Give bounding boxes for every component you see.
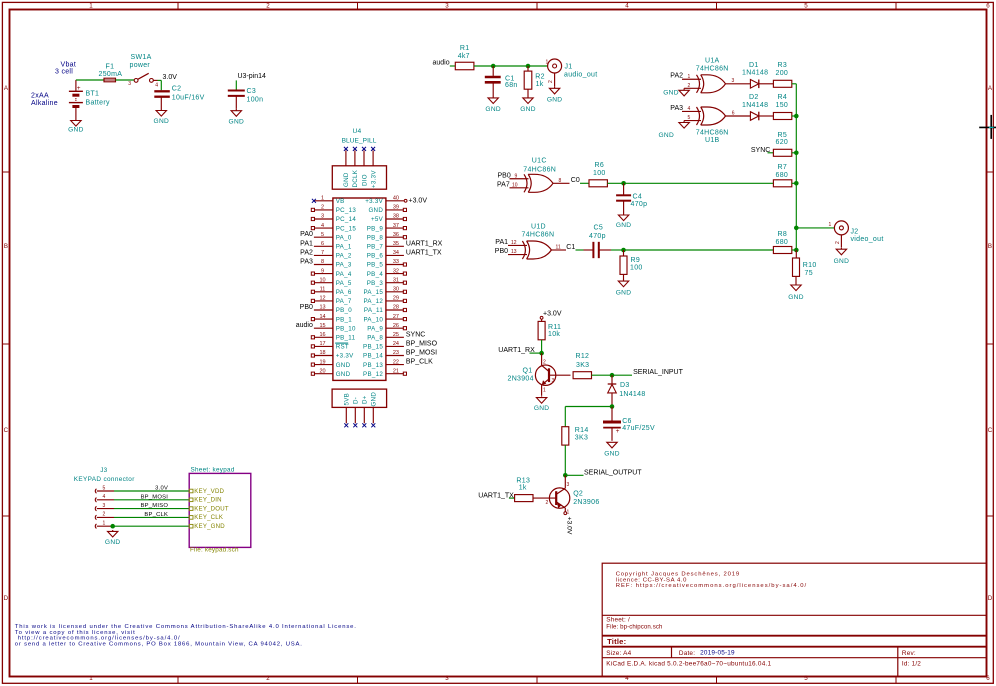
svg-text:8: 8 (321, 259, 324, 265)
wire R4 to video bus (792, 115, 797, 117)
svg-text:3K3: 3K3 (575, 435, 588, 442)
svg-text:PA7: PA7 (497, 181, 510, 188)
svg-text:BT1: BT1 (86, 91, 100, 98)
U4 pin 4 PC_15 (311, 223, 356, 233)
svg-text:3: 3 (445, 3, 449, 10)
svg-text:GND: GND (336, 371, 351, 378)
svg-text:PA_0: PA_0 (336, 234, 352, 241)
U4 pin 22 PB_13 (363, 359, 433, 369)
power +3.0V below Q2 (564, 512, 573, 535)
svg-text:GND: GND (105, 539, 121, 546)
transistor Q2 2N3906 (533, 475, 600, 515)
U1D pin 12 (508, 244, 527, 246)
connector J2 video_out (829, 221, 884, 248)
svg-text:24: 24 (393, 341, 399, 347)
svg-text:27: 27 (393, 314, 399, 320)
svg-text:PA0: PA0 (300, 231, 313, 238)
connector J1 audio_out (546, 59, 598, 87)
wire R14 to SERIAL_OUTPUT junction (564, 445, 566, 475)
xor gate U1C 74HC86N (523, 158, 556, 193)
svg-text:2: 2 (103, 512, 106, 518)
junction R4 bus (794, 114, 799, 119)
ground below BT1 (68, 119, 84, 134)
svg-text:C: C (4, 427, 9, 434)
U1B pin 4 (682, 110, 701, 112)
svg-text:1: 1 (321, 196, 324, 202)
svg-text:PB_1: PB_1 (336, 316, 353, 323)
fuse F1 250mA (99, 64, 123, 82)
svg-text:Size: A4: Size: A4 (606, 650, 631, 657)
svg-text:R5: R5 (778, 132, 788, 139)
U4 pin 16 PB_11 (311, 332, 355, 342)
U4 pin 26 PA_9 (367, 323, 406, 333)
svg-text:KiCad E.D.A. kicad 5.0.2-bee7: KiCad E.D.A. kicad 5.0.2-bee76a0~70~ubun… (606, 660, 771, 667)
svg-text:680: 680 (776, 172, 789, 179)
svg-text:+5V: +5V (371, 216, 384, 223)
svg-text:PA_6: PA_6 (336, 289, 352, 296)
svg-text:U1D: U1D (531, 224, 546, 231)
transistor Q1 2N3904 (508, 353, 571, 396)
svg-text:D3: D3 (620, 382, 630, 389)
svg-text:3: 3 (732, 78, 735, 84)
svg-text:1: 1 (546, 60, 549, 66)
xor gate U1B 74HC86N (696, 107, 729, 144)
resistor R7 680 (773, 164, 791, 187)
wire C1 node to R8 (624, 249, 774, 251)
U1B pin 5 to ground (684, 120, 701, 122)
ground at U1B pin 5 (659, 123, 690, 139)
ground below J2 (834, 248, 850, 265)
svg-text:RST: RST (336, 344, 349, 351)
svg-text:40: 40 (393, 196, 399, 202)
svg-text:PA3: PA3 (300, 259, 313, 266)
svg-text:26: 26 (393, 323, 399, 329)
resistor R5 620 (773, 132, 791, 156)
U1A pin 1 (682, 78, 701, 80)
svg-text:100: 100 (630, 265, 643, 272)
svg-text:VB: VB (336, 198, 345, 205)
svg-text:GND: GND (336, 362, 351, 369)
svg-text:4: 4 (321, 223, 324, 229)
svg-text:REF: https://creativecommons.o: REF: https://creativecommons.org/license… (616, 583, 807, 589)
svg-text:35: 35 (393, 241, 399, 247)
wire R12 to SERIAL_INPUT (592, 374, 632, 376)
svg-text:PA_3: PA_3 (336, 262, 352, 269)
svg-text:R4: R4 (778, 94, 788, 101)
svg-text:GND: GND (154, 118, 170, 125)
junction R7 bus (794, 181, 799, 186)
svg-text:250mA: 250mA (99, 71, 123, 78)
svg-text:39: 39 (393, 205, 399, 211)
svg-text:11: 11 (320, 287, 326, 293)
U4 pin 11 PA_6 (311, 287, 352, 297)
U4 pin 20 GND (311, 368, 350, 378)
svg-text:1: 1 (103, 521, 106, 527)
svg-text:audio: audio (433, 60, 450, 67)
svg-text:10k: 10k (548, 331, 560, 338)
svg-text:1: 1 (89, 3, 93, 10)
wire J3 pin 5 to sheet (114, 490, 189, 492)
svg-text:BP_MOSI: BP_MOSI (141, 494, 169, 500)
resistor R12 3K3 (573, 353, 591, 379)
junction C4 node (621, 181, 626, 186)
svg-text:5: 5 (688, 115, 691, 121)
wire J3 pin 1 to sheet (114, 525, 189, 527)
U4 pin 36 PB_8 (367, 232, 407, 242)
svg-text:KEY_DIN: KEY_DIN (194, 497, 221, 504)
wire J3 pin 2 to sheet (114, 516, 189, 518)
svg-text:2xAA: 2xAA (31, 93, 49, 100)
svg-text:KEY_CLK: KEY_CLK (194, 514, 223, 521)
svg-text:25: 25 (393, 332, 399, 338)
svg-text:12: 12 (511, 240, 517, 246)
sheet pin KEY_VDD (189, 488, 224, 495)
svg-text:GND: GND (659, 132, 675, 139)
svg-text:GND: GND (485, 106, 501, 113)
svg-text:PB0: PB0 (300, 304, 313, 311)
power +3.0V at U4 pin 40 (404, 198, 427, 205)
U4 pin 30 PA_15 (363, 287, 406, 297)
svg-text:D2: D2 (749, 94, 759, 101)
svg-text:PB0: PB0 (498, 172, 511, 179)
svg-text:PA_1: PA_1 (336, 244, 352, 251)
U4 pin 13 PB_0 (300, 304, 353, 314)
U4 SWD header box GND DCLK DIO +3.3V (332, 166, 386, 189)
svg-text:+3.0V: +3.0V (409, 198, 428, 205)
svg-text:38: 38 (393, 214, 399, 220)
svg-text:PB_6: PB_6 (367, 253, 384, 260)
svg-text:3K3: 3K3 (576, 362, 589, 369)
svg-text:74HC86N: 74HC86N (696, 66, 729, 73)
svg-text:3: 3 (445, 675, 449, 682)
svg-text:A: A (4, 85, 9, 92)
svg-text:R7: R7 (778, 164, 788, 171)
svg-text:R14: R14 (575, 427, 589, 434)
svg-text:PC_13: PC_13 (336, 207, 357, 214)
svg-text:Q1: Q1 (523, 368, 533, 375)
svg-text:7: 7 (321, 250, 324, 256)
svg-text:1N4148: 1N4148 (619, 391, 645, 398)
svg-text:SERIAL_OUTPUT: SERIAL_OUTPUT (584, 469, 642, 476)
svg-text:PA2: PA2 (300, 249, 313, 256)
svg-text:Vbat: Vbat (61, 62, 77, 69)
svg-text:D1: D1 (749, 62, 759, 69)
svg-text:GND: GND (604, 451, 620, 458)
J3 pin 3 (95, 503, 114, 511)
svg-text:audio: audio (296, 322, 313, 329)
diode D3 1N4148 (608, 375, 646, 406)
svg-text:3.0V: 3.0V (163, 74, 178, 81)
svg-text:D: D (988, 595, 993, 602)
U4 pin 5 PA_0 (300, 231, 352, 241)
svg-text:31: 31 (393, 277, 399, 283)
svg-text:Id: 1/2: Id: 1/2 (902, 660, 921, 667)
U1C pin 10 (510, 187, 529, 189)
svg-text:1: 1 (829, 222, 832, 228)
ground below C4 (616, 213, 632, 229)
svg-text:5: 5 (804, 3, 808, 10)
svg-text:or send a letter to Creative C: or send a letter to Creative Commons, PO… (15, 641, 303, 647)
svg-text:13: 13 (319, 305, 325, 311)
ground below R2 (520, 98, 536, 113)
svg-text:R3: R3 (778, 62, 788, 69)
svg-text:PB_3: PB_3 (367, 280, 384, 287)
svg-text:UART1_TX: UART1_TX (406, 249, 442, 256)
svg-text:10uF/16V: 10uF/16V (172, 95, 205, 102)
diode D1 1N4148 (742, 62, 768, 88)
U4 pin 32 PB_4 (367, 268, 407, 278)
ground below C3 (229, 109, 245, 126)
U1B output pin 6 (726, 115, 751, 117)
sheet pin KEY_GND (189, 523, 225, 530)
U4 USB box 5VB D- D+ GND (332, 389, 387, 407)
svg-text:R10: R10 (803, 262, 817, 269)
resistor R2 1k (524, 66, 545, 98)
svg-text:+: + (616, 428, 620, 435)
svg-text:PB_10: PB_10 (336, 325, 356, 332)
resistor R10 75 (793, 250, 817, 285)
svg-text:UART1_RX: UART1_RX (406, 240, 443, 247)
wire R3 to video bus (792, 83, 797, 85)
svg-text:22: 22 (393, 359, 399, 365)
U4 pin 29 PA_12 (363, 296, 406, 306)
svg-text:KEY_VDD: KEY_VDD (194, 488, 224, 495)
svg-text:J1: J1 (565, 64, 573, 71)
svg-text:Sheet: keypad: Sheet: keypad (191, 466, 235, 473)
wire label to C3 (235, 80, 237, 89)
svg-text:PA_15: PA_15 (363, 289, 383, 296)
junction at J3 pin 1 (110, 524, 115, 529)
wire battery to fuse (76, 79, 104, 81)
U4 pin 27 PA_10 (363, 314, 406, 324)
svg-text:B: B (988, 243, 992, 250)
svg-text:BP_MISO: BP_MISO (406, 340, 438, 347)
resistor R11 10k (538, 321, 561, 353)
svg-text:PB0: PB0 (495, 248, 508, 255)
capacitor C4 470p (616, 183, 647, 213)
svg-text:PA1: PA1 (300, 240, 313, 247)
svg-text:1N4148: 1N4148 (742, 70, 768, 77)
svg-text:GND: GND (368, 207, 383, 214)
U4 pin 35 PB_7 (367, 240, 443, 250)
U1D output pin 11 (551, 249, 566, 251)
svg-text:3: 3 (321, 214, 324, 220)
svg-text:470p: 470p (589, 233, 606, 240)
svg-text:GND: GND (834, 258, 850, 265)
svg-text:11: 11 (556, 245, 561, 251)
resistor R14 3K3 (562, 427, 589, 445)
wire R7 to video bus (792, 182, 797, 184)
U4 USB no-connects (344, 423, 375, 427)
svg-text:F1: F1 (106, 64, 115, 71)
svg-text:C3: C3 (247, 88, 257, 95)
svg-text:PB_7: PB_7 (367, 244, 384, 251)
net label SERIAL_OUTPUT (565, 469, 642, 476)
svg-text:Q2: Q2 (573, 490, 583, 497)
svg-text:SW1A: SW1A (131, 54, 152, 61)
wire R6 to C4 node (607, 182, 623, 184)
svg-text:SYNC: SYNC (406, 331, 425, 338)
svg-text:34: 34 (393, 250, 399, 256)
U4 pin 39 GND (368, 205, 406, 215)
wire C0 to R6 (580, 182, 589, 184)
J3 pin 2 (95, 512, 114, 520)
U4 pin 38 +5V (371, 214, 406, 224)
svg-text:47uF/25V: 47uF/25V (622, 425, 655, 432)
svg-text:Date:: Date: (679, 650, 695, 657)
sheet pin KEY_CLK (189, 514, 223, 521)
svg-text:6: 6 (732, 110, 735, 116)
svg-text:D+: D+ (362, 395, 369, 404)
svg-text:BLUE_PILL: BLUE_PILL (342, 138, 377, 145)
svg-text:10: 10 (512, 183, 518, 189)
svg-text:Alkaline: Alkaline (31, 100, 58, 107)
svg-text:PB_14: PB_14 (363, 353, 383, 360)
svg-text:150: 150 (776, 102, 789, 109)
wire C5 to R9 node (599, 249, 611, 251)
svg-text:GND: GND (616, 222, 632, 229)
svg-text:1k: 1k (536, 81, 544, 88)
U1A pin 2 to ground (684, 87, 701, 89)
svg-text:C4: C4 (633, 194, 643, 201)
svg-text:1: 1 (688, 74, 691, 80)
U4 pin 3 PC_14 (311, 214, 356, 224)
xor gate U1D 74HC86N (522, 224, 555, 259)
svg-text:C2: C2 (172, 86, 182, 93)
svg-text:23: 23 (393, 350, 399, 356)
U4 pin 17 RST (311, 341, 349, 351)
svg-text:2: 2 (688, 83, 691, 89)
svg-text:video_out: video_out (851, 236, 884, 243)
ground below Q1 (534, 396, 550, 412)
svg-text:J2: J2 (851, 229, 859, 236)
svg-text:PA3: PA3 (670, 105, 683, 112)
svg-text:17: 17 (319, 341, 325, 347)
svg-text:21: 21 (393, 368, 399, 374)
U1D pin 13 (508, 254, 527, 256)
wire D1 to R3 (759, 83, 773, 85)
svg-text:PA_10: PA_10 (363, 316, 383, 323)
svg-text:19: 19 (319, 359, 325, 365)
svg-text:GND: GND (68, 127, 84, 134)
svg-text:KEY_GND: KEY_GND (194, 523, 225, 530)
ground below C6 (604, 442, 620, 457)
ground below C2 (154, 109, 170, 126)
U4 pin 7 PA_2 (300, 249, 352, 259)
wire D3 node to R14 (565, 406, 612, 408)
svg-text:33: 33 (393, 259, 399, 265)
switch SW1A power (128, 54, 158, 88)
svg-text:4k7: 4k7 (458, 53, 470, 60)
wire UART1_TX to R13 (509, 497, 515, 499)
svg-text:Battery: Battery (86, 100, 110, 107)
U4 pin 15 PB_10 (296, 322, 356, 332)
svg-text:D: D (4, 595, 9, 602)
xor gate U1A 74HC86N (696, 58, 729, 93)
svg-text:18: 18 (319, 350, 325, 356)
svg-text:6: 6 (321, 241, 324, 247)
svg-text:74HC86N: 74HC86N (522, 231, 555, 238)
svg-text:R9: R9 (631, 257, 641, 264)
svg-text:100: 100 (593, 170, 606, 177)
svg-text:10: 10 (319, 277, 325, 283)
svg-text:2: 2 (835, 241, 841, 244)
svg-text:13: 13 (511, 249, 517, 255)
svg-text:1N4148: 1N4148 (742, 102, 768, 109)
U4 SWD header pins (346, 151, 373, 166)
wire SYNC to R5 (768, 152, 774, 154)
svg-text:PA_11: PA_11 (364, 307, 383, 314)
svg-text:+3.0V: +3.0V (543, 311, 562, 318)
svg-text:3: 3 (103, 503, 106, 509)
U4 body (333, 198, 386, 380)
svg-text:1: 1 (543, 388, 546, 394)
U4 pin 34 PB_6 (367, 249, 442, 259)
svg-text:C1: C1 (566, 244, 575, 251)
J3 pin 4 (95, 494, 114, 502)
svg-text:File: keypad.sch: File: keypad.sch (190, 547, 239, 554)
wire UART1_RX to junction (530, 352, 542, 354)
U4 pin 31 PB_3 (367, 277, 407, 287)
svg-text:B: B (4, 243, 8, 250)
U4 pin 1 VB (312, 196, 345, 206)
hierarchical sheet keypad (189, 473, 251, 547)
svg-text:Title:: Title: (607, 637, 626, 646)
svg-text:audio_out: audio_out (564, 72, 597, 79)
svg-text:Rev:: Rev: (902, 650, 916, 657)
wire D2 to R4 (759, 115, 773, 117)
svg-text:2019-05-19: 2019-05-19 (700, 650, 735, 657)
resistor R6 100 (589, 162, 607, 187)
svg-text:9: 9 (321, 268, 324, 274)
svg-text:PA_4: PA_4 (336, 271, 352, 278)
svg-text:4: 4 (103, 494, 106, 500)
svg-text:2: 2 (266, 675, 270, 682)
power +3.0V above R11 (540, 311, 562, 322)
U4 SWD header no-connects (344, 147, 375, 151)
svg-text:+: + (77, 85, 81, 92)
wire C1 to C5 (576, 249, 584, 251)
svg-text:R1: R1 (460, 45, 470, 52)
svg-text:C5: C5 (594, 225, 604, 232)
sheet pin KEY_DOUT (189, 505, 229, 512)
svg-text:Sheet: /: Sheet: / (606, 616, 630, 623)
U4 USB pins (346, 407, 373, 423)
svg-text:GND: GND (788, 294, 804, 301)
svg-text:2: 2 (548, 80, 554, 83)
svg-text:C: C (988, 427, 993, 434)
junction at C1 (491, 64, 496, 69)
svg-text:1k: 1k (519, 484, 527, 491)
junction at R2 (526, 64, 531, 69)
U4 pin 10 PA_5 (311, 277, 352, 287)
svg-text:U1C: U1C (532, 158, 547, 165)
svg-text:SERIAL_INPUT: SERIAL_INPUT (633, 369, 684, 376)
svg-text:PA_2: PA_2 (336, 253, 352, 260)
svg-text:GND: GND (663, 89, 679, 96)
svg-text:3: 3 (567, 482, 570, 488)
svg-text:100n: 100n (247, 97, 264, 104)
svg-text:+3.3V: +3.3V (365, 198, 383, 205)
svg-text:74HC86N: 74HC86N (696, 130, 729, 137)
U4 pin 12 PA_7 (311, 296, 352, 306)
svg-text:R11: R11 (548, 324, 561, 331)
svg-text:DIO: DIO (361, 174, 368, 186)
J3 pin 1 (95, 521, 114, 529)
svg-text:PB_11: PB_11 (336, 335, 356, 342)
svg-text:74HC86N: 74HC86N (523, 166, 556, 173)
U1C output pin 8 (553, 182, 570, 184)
